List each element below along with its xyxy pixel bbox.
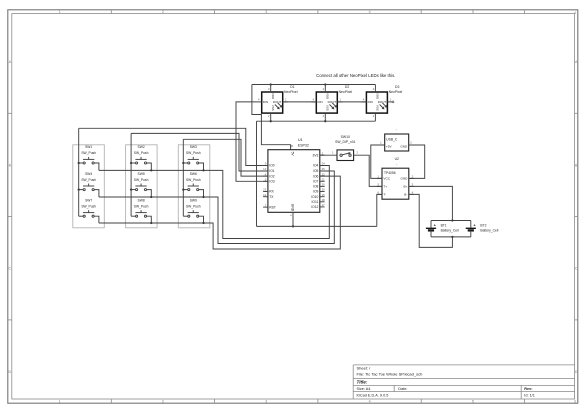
- switch column box 3: [178, 145, 210, 228]
- svg-text:SW_Push: SW_Push: [186, 178, 201, 182]
- svg-text:Title:: Title:: [357, 380, 368, 385]
- svg-text:Battery_Cell: Battery_Cell: [480, 228, 498, 232]
- junction dot ESP32 GND: [292, 225, 294, 227]
- switch column box 2: [126, 145, 158, 228]
- svg-text:NeoPixel: NeoPixel: [284, 90, 298, 94]
- svg-text:VSS: VSS: [271, 105, 275, 111]
- svg-text:1: 1: [59, 10, 61, 14]
- svg-text:ESP32: ESP32: [298, 144, 309, 148]
- neopixel D3: [361, 85, 392, 122]
- svg-text:3: 3: [265, 400, 267, 404]
- svg-text:DIN: DIN: [318, 100, 323, 104]
- pushbutton SW1: [79, 145, 99, 170]
- label D1 NeoPixel: [284, 85, 298, 94]
- svg-text:11: 11: [290, 145, 294, 148]
- svg-text:+5V: +5V: [386, 144, 393, 148]
- wire battery bottom bus: [431, 236, 471, 238]
- svg-text:SW2: SW2: [138, 145, 145, 149]
- junction dots column bus 2: [130, 162, 132, 191]
- switch column box 1: [73, 145, 105, 228]
- svg-text:2: 2: [373, 114, 375, 118]
- wire col1 to ESP32 IO0: [79, 128, 268, 165]
- svg-text:6: 6: [574, 400, 576, 404]
- svg-text:SW1: SW1: [85, 145, 92, 149]
- wire col2 to ESP32 IO1: [131, 133, 268, 171]
- svg-text:A: A: [9, 60, 12, 64]
- svg-text:TP4056: TP4056: [384, 171, 396, 175]
- svg-text:B+: B+: [404, 185, 408, 189]
- svg-text:4: 4: [412, 190, 414, 194]
- svg-text:RX: RX: [269, 190, 274, 194]
- svg-text:SW_Push: SW_Push: [186, 204, 201, 208]
- svg-text:SW5: SW5: [138, 172, 145, 176]
- label U2: [395, 157, 399, 166]
- label SW10: [335, 135, 355, 144]
- svg-text:4: 4: [313, 98, 315, 102]
- svg-text:Sheet: /: Sheet: /: [357, 366, 372, 371]
- svg-text:T-: T-: [383, 193, 386, 197]
- svg-text:1: 1: [285, 98, 287, 102]
- wire col3 to ESP32 IO2: [183, 139, 268, 176]
- svg-text:Battery_Cell: Battery_Cell: [441, 228, 459, 232]
- svg-text:Id: 1/1: Id: 1/1: [524, 394, 535, 398]
- svg-text:IO12: IO12: [311, 205, 318, 209]
- wire ESP32 GND pin to ground bus: [292, 212, 294, 226]
- svg-text:VDD: VDD: [271, 93, 275, 99]
- junction dots NeoPixel VSS bus: [270, 120, 327, 122]
- junction dots rows: [150, 169, 205, 224]
- svg-text:18: 18: [322, 198, 326, 202]
- svg-text:DOUT: DOUT: [273, 100, 282, 104]
- wire ground bus: [257, 225, 377, 227]
- svg-text:2: 2: [323, 114, 325, 118]
- label D2 NeoPixel: [339, 85, 353, 94]
- svg-text:1: 1: [377, 174, 379, 178]
- junction dots battery buses: [451, 219, 453, 238]
- svg-text:SW9: SW9: [190, 198, 197, 202]
- svg-text:GND: GND: [400, 144, 408, 148]
- svg-text:BT1: BT1: [441, 224, 447, 228]
- junction dots column bus 3: [182, 162, 184, 191]
- svg-text:RST: RST: [269, 205, 276, 209]
- svg-text:DIN: DIN: [263, 100, 268, 104]
- svg-text:BT2: BT2: [480, 224, 486, 228]
- svg-text:NeoPixel: NeoPixel: [339, 90, 353, 94]
- svg-text:B: B: [9, 163, 12, 167]
- wire row1 to ESP32 IO4: [99, 166, 329, 239]
- svg-text:-: -: [396, 128, 397, 132]
- svg-text:B-: B-: [404, 193, 407, 197]
- svg-text:2: 2: [412, 174, 414, 178]
- svg-text:DOUT: DOUT: [328, 100, 337, 104]
- svg-text:5V: 5V: [291, 152, 295, 157]
- svg-text:2: 2: [162, 400, 164, 404]
- ic U2 TP4056: [377, 168, 414, 199]
- svg-text:24: 24: [322, 162, 326, 166]
- battery BT2: [466, 221, 477, 237]
- junction dots NeoPixel VDD bus: [270, 83, 327, 85]
- svg-text:SW_Push: SW_Push: [81, 151, 96, 155]
- svg-text:3: 3: [268, 87, 270, 91]
- svg-text:6: 6: [575, 11, 577, 15]
- svg-text:14: 14: [263, 193, 267, 197]
- svg-text:D3: D3: [395, 85, 399, 89]
- wire D1 DIN to ESP32 IO3: [236, 102, 268, 181]
- svg-text:IO4: IO4: [313, 164, 318, 168]
- label U1 ESP32: [298, 138, 309, 148]
- switch SW10 SW_DIP_x01: [332, 150, 358, 161]
- svg-text:1: 1: [59, 400, 61, 404]
- svg-text:5: 5: [472, 10, 474, 14]
- svg-text:3: 3: [373, 87, 375, 91]
- wire battery top bus: [431, 220, 471, 222]
- svg-text:SW10: SW10: [341, 135, 350, 139]
- svg-text:26: 26: [322, 188, 326, 192]
- svg-text:+: +: [434, 223, 437, 228]
- svg-text:C: C: [575, 267, 578, 271]
- svg-text:NeoPixel: NeoPixel: [389, 90, 403, 94]
- svg-text:+: +: [473, 223, 476, 228]
- svg-text:22: 22: [322, 172, 326, 176]
- svg-text:SW_DIP_x01: SW_DIP_x01: [335, 140, 355, 144]
- svg-text:25: 25: [322, 167, 326, 171]
- pushbutton SW4: [79, 172, 99, 197]
- svg-text:SW_Push: SW_Push: [134, 204, 149, 208]
- svg-text:DIN: DIN: [368, 100, 373, 104]
- svg-text:IO0: IO0: [269, 164, 274, 168]
- pushbutton SW6: [183, 172, 203, 197]
- svg-text:1: 1: [289, 214, 293, 216]
- svg-text:20: 20: [322, 183, 326, 187]
- pushbutton SW9: [183, 198, 203, 223]
- svg-text:TX: TX: [269, 195, 274, 199]
- svg-text:5: 5: [377, 182, 379, 186]
- svg-text:IO3: IO3: [269, 180, 274, 184]
- pushbutton SW5: [131, 172, 151, 197]
- svg-text:17: 17: [322, 203, 326, 207]
- svg-text:3V3: 3V3: [313, 153, 319, 157]
- wire VDD top bus: [252, 84, 376, 86]
- grid reference letters left/right: [8, 60, 578, 374]
- svg-text:SW_Push: SW_Push: [134, 178, 149, 182]
- svg-text:Date:: Date:: [398, 387, 407, 391]
- svg-text:IO11: IO11: [311, 200, 318, 204]
- svg-text:-: -: [396, 162, 397, 166]
- svg-text:SW3: SW3: [190, 145, 197, 149]
- svg-text:IO1: IO1: [269, 169, 274, 173]
- svg-text:2: 2: [356, 150, 358, 154]
- wire VDD bus to ESP32 5V pin: [252, 85, 291, 150]
- svg-text:4: 4: [369, 10, 371, 14]
- svg-text:IO8: IO8: [313, 185, 318, 189]
- wire TP4056 B- to battery bus: [409, 194, 453, 247]
- title block: [353, 365, 574, 399]
- battery BT1: [426, 221, 437, 237]
- svg-text:D1: D1: [290, 85, 294, 89]
- wire VSS bottom bus: [257, 120, 376, 122]
- svg-text:4: 4: [363, 98, 365, 102]
- svg-text:IO2: IO2: [269, 174, 274, 178]
- svg-text:5: 5: [472, 400, 474, 404]
- svg-text:VCC: VCC: [383, 177, 390, 181]
- wire row2 to ESP32 IO5: [99, 171, 334, 244]
- svg-text:SW_Push: SW_Push: [186, 151, 201, 155]
- svg-text:T+: T+: [383, 185, 387, 189]
- svg-text:VSS: VSS: [325, 105, 329, 111]
- wire TP4056 B+ to battery bus: [409, 186, 453, 220]
- wire ground VSS bus down: [256, 121, 258, 226]
- junction dots column bus 1: [78, 162, 80, 191]
- svg-text:3: 3: [412, 182, 414, 186]
- pushbutton SW8: [131, 198, 151, 223]
- pushbutton SW3: [183, 145, 203, 170]
- svg-text:Connect all other NeoPixel LED: Connect all other NeoPixel LEDs like thi…: [316, 73, 395, 78]
- svg-text:3: 3: [265, 10, 267, 14]
- svg-text:KiCad E.D.A. 9.0.5: KiCad E.D.A. 9.0.5: [357, 394, 389, 398]
- svg-text:2: 2: [410, 140, 412, 144]
- svg-text:IO9: IO9: [313, 190, 318, 194]
- svg-text:IO7: IO7: [313, 180, 318, 184]
- svg-text:2: 2: [268, 114, 270, 118]
- wire TP4056 T- to ground bus: [377, 194, 382, 226]
- label BT1 Battery_Cell: [441, 224, 459, 233]
- svg-text:15: 15: [322, 193, 326, 197]
- svg-text:SW8: SW8: [138, 198, 145, 202]
- svg-text:File: Tic Tac Toe Whole SP.kic: File: Tic Tac Toe Whole SP.kicad_sch: [357, 371, 423, 376]
- svg-text:SW7: SW7: [85, 198, 92, 202]
- svg-text:SW4: SW4: [85, 172, 92, 176]
- wire row3 to ESP32 IO6: [99, 176, 340, 249]
- svg-text:D: D: [8, 370, 11, 374]
- svg-text:SW6: SW6: [190, 172, 197, 176]
- svg-text:VDD: VDD: [325, 93, 329, 99]
- svg-text:1: 1: [380, 140, 382, 144]
- svg-text:23: 23: [263, 188, 267, 192]
- wire USB_C +5V to TP4056 VCC: [371, 145, 385, 178]
- wire D2 DOUT to D3 DIN: [337, 101, 366, 103]
- neopixel D1: [257, 85, 288, 122]
- svg-text:U1: U1: [298, 138, 303, 142]
- D3 DOUT open end: [392, 101, 394, 103]
- svg-text:VSS: VSS: [376, 105, 380, 111]
- wire column bus 3: [182, 139, 184, 216]
- label BT2 Battery_Cell: [480, 224, 498, 233]
- svg-text:1: 1: [340, 98, 342, 102]
- title block text: [357, 366, 535, 398]
- svg-text:VDD: VDD: [376, 93, 380, 99]
- svg-text:GND: GND: [401, 177, 409, 181]
- svg-text:D: D: [575, 370, 578, 374]
- wire ESP32 3V3 to SW10: [320, 154, 337, 156]
- wire column bus 2: [130, 133, 132, 216]
- ic U1 ESP32: [263, 145, 325, 217]
- svg-text:DOUT: DOUT: [378, 100, 387, 104]
- wire USB_C GND to TP4056 GND: [409, 145, 425, 178]
- note text: [316, 73, 395, 78]
- svg-text:2: 2: [162, 10, 164, 14]
- svg-text:U2: U2: [395, 157, 399, 161]
- svg-text:GND: GND: [290, 204, 294, 212]
- neopixel D2: [311, 85, 342, 122]
- connector USB_C: [380, 134, 414, 151]
- svg-text:IO5: IO5: [313, 169, 318, 173]
- pushbutton SW2: [131, 145, 151, 170]
- svg-text:6: 6: [377, 190, 379, 194]
- svg-text:D2: D2: [345, 85, 349, 89]
- svg-text:IO6: IO6: [313, 174, 318, 178]
- pushbutton SW7: [79, 198, 99, 223]
- svg-text:1: 1: [390, 98, 392, 102]
- svg-text:SW_Push: SW_Push: [81, 204, 96, 208]
- label D3 NeoPixel: [389, 85, 403, 94]
- svg-text:3: 3: [323, 87, 325, 91]
- wire SW10 to TP4056 T+: [354, 155, 382, 186]
- svg-text:4: 4: [369, 400, 371, 404]
- svg-text:C: C: [8, 267, 11, 271]
- label USB_C value: [396, 128, 397, 132]
- svg-text:21: 21: [322, 178, 326, 182]
- svg-text:SW_Push: SW_Push: [81, 178, 96, 182]
- wire column bus 1: [78, 128, 80, 216]
- svg-text:SW_Push: SW_Push: [134, 151, 149, 155]
- svg-text:USB_C: USB_C: [386, 137, 398, 141]
- svg-text:1: 1: [332, 150, 334, 154]
- svg-text:Rev:: Rev:: [524, 387, 532, 391]
- svg-text:IO10: IO10: [311, 195, 318, 199]
- svg-text:13: 13: [263, 167, 267, 171]
- wire D1 DOUT to D2 DIN: [283, 101, 317, 103]
- svg-text:4: 4: [258, 98, 260, 102]
- svg-text:Size: A4: Size: A4: [357, 387, 371, 391]
